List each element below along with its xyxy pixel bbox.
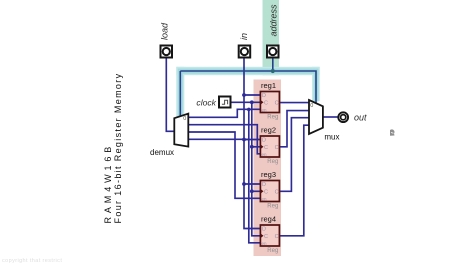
svg-text:address: address	[269, 4, 279, 37]
svg-text:en: en	[262, 108, 268, 113]
svg-text:reg3: reg3	[261, 170, 276, 179]
svg-text:Reg: Reg	[267, 204, 278, 210]
svg-text:in: in	[239, 33, 249, 40]
svg-text:C: C	[275, 145, 279, 151]
svg-text:en: en	[262, 197, 268, 202]
svg-text:clock: clock	[196, 98, 216, 108]
svg-text:load: load	[160, 22, 170, 40]
svg-text:Reg: Reg	[267, 159, 278, 165]
svg-text:demux: demux	[150, 148, 174, 157]
svg-text:D: D	[262, 138, 266, 144]
svg-text:mux: mux	[324, 132, 339, 141]
svg-text:C: C	[264, 190, 268, 196]
svg-text:en: en	[262, 152, 268, 157]
svg-text:reg2: reg2	[261, 125, 276, 134]
svg-text:0: 0	[310, 103, 313, 109]
svg-text:Four 16-bit Register Memory: Four 16-bit Register Memory	[113, 73, 123, 224]
svg-text:Reg: Reg	[267, 248, 278, 254]
svg-text:en: en	[262, 241, 268, 246]
svg-text:C: C	[275, 190, 279, 196]
svg-text:C: C	[275, 234, 279, 240]
svg-text:C: C	[264, 101, 268, 107]
svg-text:C: C	[275, 101, 279, 107]
svg-text:D: D	[262, 227, 266, 233]
svg-text:0: 0	[183, 116, 186, 122]
svg-text:reg4: reg4	[261, 214, 276, 223]
svg-text:D: D	[262, 182, 266, 188]
svg-text:Reg: Reg	[267, 115, 278, 121]
svg-text:copyright that restrict: copyright that restrict	[2, 258, 62, 264]
svg-text:out: out	[354, 113, 367, 123]
svg-text:reg1: reg1	[261, 81, 276, 90]
svg-text:C: C	[264, 234, 268, 240]
svg-text:D: D	[262, 93, 266, 99]
svg-text:RAM4W16B: RAM4W16B	[103, 143, 113, 224]
svg-text:C: C	[264, 145, 268, 151]
